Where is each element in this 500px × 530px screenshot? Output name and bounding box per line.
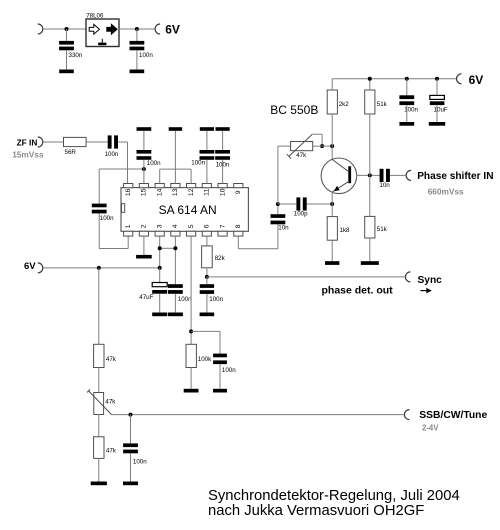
svg-text:82k: 82k — [215, 255, 226, 262]
svg-text:6V: 6V — [24, 261, 36, 272]
wire pins 14-12 bridge — [160, 168, 191, 170]
pin 2 — [139, 224, 148, 236]
wire node to C13 — [278, 203, 297, 205]
wire wiper right — [312, 133, 322, 135]
svg-text:11: 11 — [204, 189, 211, 196]
wire R5 to collector node — [331, 114, 333, 146]
svg-text:7: 7 — [219, 224, 226, 228]
svg-text:Phase shifter IN: Phase shifter IN — [417, 171, 493, 182]
pin 5 — [187, 224, 196, 236]
svg-text:100n: 100n — [191, 160, 205, 167]
svg-text:100n: 100n — [100, 215, 114, 222]
wire ground to C4 — [143, 131, 145, 150]
svg-text:100n: 100n — [222, 367, 236, 374]
svg-text:6V: 6V — [165, 23, 180, 37]
pin 6 — [202, 224, 211, 236]
pin 1 — [124, 224, 133, 236]
ground R2 — [184, 389, 199, 393]
svg-text:51k: 51k — [377, 226, 388, 233]
wire R11 to ground — [98, 458, 100, 481]
wire ZF IN to R1 — [44, 141, 64, 143]
wire C10 to ground — [219, 364, 221, 389]
wire to C1 — [66, 29, 68, 41]
junction rail R6 — [368, 77, 372, 81]
svg-text:9: 9 — [235, 190, 242, 194]
svg-text:SA 614 AN: SA 614 AN — [159, 203, 217, 217]
junction C12 node — [276, 202, 280, 206]
ground C16 — [429, 122, 445, 126]
wire R8 to ground — [331, 240, 333, 261]
svg-text:5: 5 — [188, 224, 195, 228]
svg-text:47uF: 47uF — [139, 294, 153, 301]
wire up to C12 — [277, 224, 279, 248]
wire base to R7 — [369, 175, 371, 216]
ground C9 — [168, 313, 183, 317]
ground R11 — [91, 482, 107, 486]
ground C10 — [213, 389, 227, 393]
wire ground to C7 — [222, 131, 224, 150]
wire pin 12 up — [190, 169, 192, 183]
svg-text:56R: 56R — [65, 149, 77, 156]
svg-text:ZF IN: ZF IN — [17, 138, 38, 148]
wire emitter — [331, 192, 333, 204]
svg-text:100k: 100k — [198, 356, 212, 363]
svg-text:100p: 100p — [294, 211, 308, 218]
ground C7 — [216, 127, 230, 131]
svg-text:15mVss: 15mVss — [12, 150, 44, 160]
pin 15 — [139, 184, 148, 197]
svg-text:6V: 6V — [469, 73, 484, 87]
ground C1 — [59, 70, 74, 74]
svg-text:Synchrondetektor-Regelung, Jul: Synchrondetektor-Regelung, Juli 2004 — [208, 488, 460, 504]
wire emitter to R8 — [331, 204, 333, 217]
wire rail to C16 — [436, 79, 438, 95]
svg-text:10uF: 10uF — [434, 107, 448, 114]
svg-text:1: 1 — [125, 224, 132, 228]
junction pin 3 — [158, 246, 162, 250]
wire C16 to ground — [436, 105, 438, 122]
capacitor C4 100n — [137, 150, 152, 160]
capacitor C14 10n — [380, 169, 390, 182]
wire C8 to ground — [159, 294, 161, 313]
terminal SSB/CW/Tune — [404, 410, 409, 420]
wire C15 to ground — [406, 105, 408, 122]
wire base — [357, 174, 380, 176]
svg-text:47k: 47k — [106, 447, 117, 454]
svg-text:10n: 10n — [379, 182, 390, 189]
svg-text:10n: 10n — [278, 225, 289, 232]
trimmer R4 47k — [291, 142, 313, 151]
wire phase det out to Sync — [207, 276, 405, 278]
resistor R2 100k — [186, 344, 196, 367]
ground R8 — [325, 261, 339, 265]
resistor R6 51k upper — [365, 90, 375, 114]
svg-text:8: 8 — [235, 224, 242, 228]
wire pin 6 to R3 — [206, 236, 208, 246]
terminal 6V output — [155, 24, 160, 34]
trimmer R10 47k — [94, 393, 104, 415]
wire SSB/CW/Tune — [112, 414, 404, 416]
terminal 6V supply — [38, 263, 43, 273]
svg-text:100n: 100n — [209, 296, 223, 303]
svg-text:100n: 100n — [133, 458, 147, 465]
wire pins 3-4 bridge — [160, 247, 176, 249]
capacitor C5 100n — [92, 204, 107, 214]
svg-text:3: 3 — [156, 224, 163, 228]
IC U2 SA 614 AN — [121, 188, 248, 232]
svg-text:330n: 330n — [69, 52, 83, 59]
junction emitter node — [330, 202, 334, 206]
junction power in — [65, 27, 69, 31]
wire R1 to C3 — [86, 141, 108, 143]
wire 6V rail upper — [332, 78, 456, 80]
wire R3 to node — [206, 268, 208, 277]
wire R6 to base — [369, 114, 371, 175]
resistor R5 2k2 — [327, 90, 337, 114]
svg-text:13: 13 — [172, 188, 179, 196]
svg-text:2-4V: 2-4V — [422, 424, 439, 433]
wire C2 to ground — [136, 50, 138, 69]
svg-text:10: 10 — [219, 188, 226, 196]
junction wiper — [320, 144, 324, 148]
wire pin 3 down — [159, 236, 161, 268]
wire C6 to pin 11 — [206, 160, 208, 184]
pin 14 — [155, 184, 164, 197]
svg-text:15: 15 — [141, 188, 148, 196]
wire R7 to ground — [369, 238, 371, 261]
wire to C8 — [159, 268, 161, 282]
regulator U1 78L06 — [86, 19, 119, 47]
capacitor C10 100n — [213, 354, 227, 365]
wire down to C10 — [219, 331, 221, 353]
wire C12 to node — [277, 204, 279, 214]
svg-text:100n: 100n — [178, 296, 192, 303]
pin 3 — [155, 224, 164, 236]
svg-text:660mVss: 660mVss — [428, 187, 464, 197]
wire node to C5 — [98, 169, 100, 204]
pin 4 — [171, 224, 180, 236]
wire pin 4 down — [174, 236, 176, 284]
wire pin 14 up — [159, 169, 161, 183]
wire pin15 node — [99, 168, 144, 170]
wire pin 8 down — [237, 236, 239, 249]
wire to trimmer R4 — [278, 145, 291, 147]
wire to C17 — [130, 415, 132, 444]
svg-text:78L06: 78L06 — [86, 12, 104, 19]
capacitor C12 10n — [271, 214, 286, 224]
wire to C2 — [136, 29, 138, 41]
wire R5 to 6V rail — [331, 79, 333, 90]
capacitor C1 330n — [59, 41, 74, 50]
wire C13 to emitter node — [307, 203, 333, 205]
transistor Q1 BC550B — [321, 158, 357, 194]
wire pin 13 to ground — [174, 131, 176, 184]
capacitor C6 100n — [200, 150, 215, 160]
capacitor C16 10uF electrolytic — [430, 95, 445, 105]
pin 13 — [171, 184, 180, 197]
resistor R11 47k — [94, 437, 104, 459]
svg-text:100n: 100n — [216, 162, 230, 169]
capacitor C13 100p — [296, 197, 306, 210]
junction 6V to divider — [97, 266, 101, 270]
ground C8 — [152, 313, 167, 317]
svg-text:nach Jukka Vermasvuori OH2GF: nach Jukka Vermasvuori OH2GF — [208, 503, 424, 519]
svg-text:16: 16 — [125, 188, 132, 196]
trimmer R10 wiper — [87, 389, 112, 414]
junction collector node — [330, 144, 334, 148]
wire C1 to ground — [66, 50, 68, 69]
ground pin 2 — [136, 255, 152, 259]
wire C7 to pin 10 — [222, 160, 224, 184]
junction SSB to C17 — [129, 413, 133, 417]
pin 9 — [234, 184, 243, 195]
wire C9 to ground — [174, 294, 176, 313]
pin 12 — [187, 184, 196, 197]
wire R6 to rail — [369, 79, 371, 90]
wire rail to C15 — [406, 79, 408, 96]
ground C15 — [399, 122, 414, 126]
capacitor C7 100n — [215, 150, 230, 160]
junction pin15 node — [142, 167, 146, 171]
ground C2 — [130, 70, 145, 74]
svg-text:6: 6 — [204, 224, 211, 228]
svg-text:47k: 47k — [105, 399, 116, 406]
svg-text:100n: 100n — [139, 52, 153, 59]
capacitor C17 100n — [123, 443, 138, 453]
wire node to C11 — [206, 277, 208, 284]
pin 7 — [218, 224, 227, 236]
wire wiper down — [321, 134, 323, 146]
wire node to C10 — [191, 330, 220, 332]
resistor R9 47k — [94, 344, 104, 367]
wire ground to C6 — [206, 131, 208, 150]
terminal ZF IN — [38, 137, 43, 147]
terminal Phase shifter IN — [406, 170, 411, 180]
wire 6V rail lower — [44, 267, 160, 269]
ground C11 — [200, 313, 215, 317]
terminal Sync — [405, 272, 410, 282]
capacitor C9 100n — [168, 284, 183, 294]
junction 6V to pin 3 — [158, 266, 162, 270]
wire to pin 1 column — [99, 248, 128, 250]
svg-text:100n: 100n — [147, 160, 161, 167]
wire up to pin 1 — [127, 236, 129, 248]
svg-text:47k: 47k — [106, 356, 117, 363]
arrow sync direction — [421, 288, 432, 293]
junction rail C15 — [405, 77, 409, 81]
svg-text:12: 12 — [188, 188, 195, 196]
junction rail C16 — [435, 77, 439, 81]
resistor R7 51k lower — [365, 216, 375, 238]
wire C14 to terminal — [390, 174, 406, 176]
junction 6V out — [135, 27, 139, 31]
wire trimmer left down — [277, 146, 279, 204]
wire 6V down to R9 — [98, 268, 100, 346]
capacitor C3 100n series — [108, 135, 118, 148]
pin 10 — [218, 184, 227, 197]
wire pin 5 down — [190, 236, 192, 346]
capacitor C11 100n — [200, 284, 214, 294]
pin 16 — [124, 184, 133, 197]
svg-text:47k: 47k — [296, 152, 307, 159]
wire power in to regulator — [44, 28, 87, 30]
wire pin 2 to ground — [143, 236, 145, 255]
terminal power input — [38, 24, 43, 34]
wire R9 to R10 — [98, 368, 100, 393]
svg-text:14: 14 — [156, 188, 163, 196]
svg-text:51k: 51k — [377, 101, 388, 108]
svg-text:1k8: 1k8 — [340, 227, 351, 234]
wire down to pin 15 — [143, 169, 145, 184]
ground C17 — [123, 482, 138, 486]
svg-text:phase det. out: phase det. out — [322, 284, 394, 296]
resistor R1 56R — [64, 137, 87, 146]
ground C4 — [137, 127, 152, 131]
resistor R3 82k — [202, 246, 213, 268]
wire C5 down — [98, 213, 100, 248]
junction pin 4 — [173, 246, 177, 250]
wire R2 to ground — [190, 368, 192, 389]
pin 8 — [234, 224, 243, 236]
svg-text:SSB/CW/Tune: SSB/CW/Tune — [419, 410, 487, 421]
svg-text:BC 550B: BC 550B — [270, 103, 318, 117]
svg-text:100n: 100n — [105, 151, 119, 158]
wire C17 to ground — [130, 453, 132, 481]
resistor R8 1k8 — [327, 217, 337, 241]
junction pin 5 node — [189, 329, 193, 333]
svg-text:2k2: 2k2 — [339, 101, 350, 108]
ground pin 13 — [169, 127, 182, 131]
svg-text:Sync: Sync — [418, 275, 443, 286]
terminal 6V — [457, 74, 462, 84]
pin 11 — [202, 184, 211, 196]
ground C6 — [200, 127, 214, 131]
capacitor C2 100n — [130, 41, 145, 50]
svg-text:2: 2 — [141, 224, 148, 228]
ground R7 — [361, 261, 379, 265]
wire C4 to node — [143, 160, 145, 169]
wire C11 to ground — [206, 294, 208, 313]
junction phase det out — [205, 275, 209, 279]
trimmer R4 wiper — [287, 134, 313, 158]
junction base node — [368, 173, 372, 177]
capacitor C15 100n — [399, 95, 414, 105]
wire down to pin 16 — [127, 142, 129, 184]
capacitor C8 47uF electrolytic — [152, 283, 167, 294]
wire collector — [331, 146, 333, 159]
svg-text:4: 4 — [172, 224, 179, 228]
wire C3 to pin16 corner — [118, 141, 128, 143]
wire pin 8 right — [238, 248, 278, 250]
wire trimmer to collector — [313, 145, 333, 147]
wire regulator to 6V out — [119, 28, 154, 30]
wire R10 to R11 — [98, 415, 100, 437]
